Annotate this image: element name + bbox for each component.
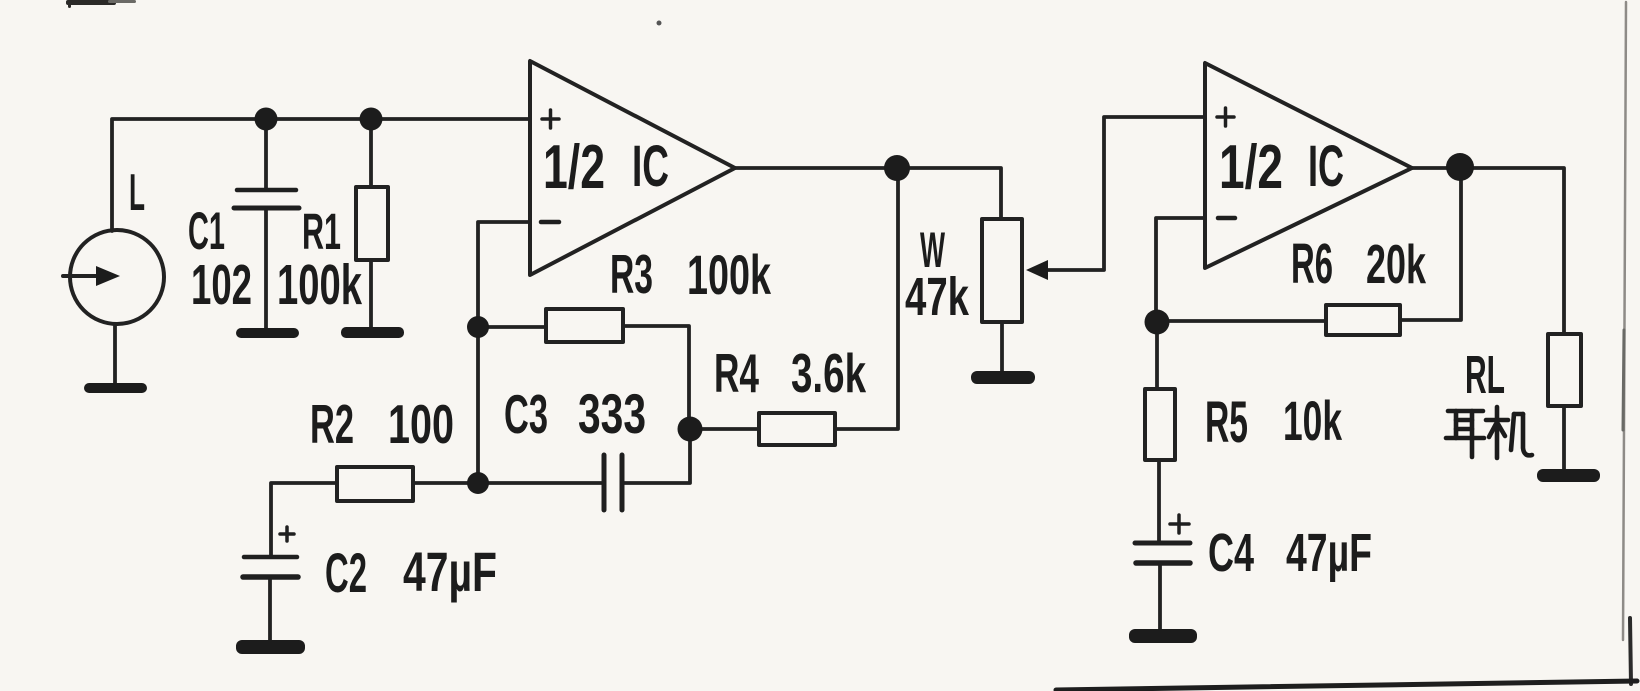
potentiometer W body [982, 219, 1022, 322]
wire: opamp1 output to pot top [735, 168, 1001, 219]
ground (C2) [236, 640, 305, 654]
svg-text:IC: IC [632, 134, 669, 199]
wire: C3 right lead up to node F [622, 429, 690, 483]
wire: R3 right lead down to node F [623, 326, 689, 429]
wire: R1 top lead [369, 119, 373, 187]
wire: R6 left lead [1157, 319, 1326, 323]
svg-text:10k: 10k [1283, 389, 1343, 452]
wire: R5 to C4 [1157, 460, 1161, 541]
wire: node G to R5 [1155, 322, 1159, 389]
svg-text:R3: R3 [610, 243, 653, 305]
junction node H (opamp2 output) [1446, 153, 1474, 181]
svg-text:333: 333 [578, 382, 646, 445]
svg-text:102: 102 [191, 253, 252, 317]
resistor R1 [356, 187, 388, 260]
svg-text:1/2: 1/2 [1219, 133, 1283, 202]
wire: C2 to ground [268, 577, 272, 641]
svg-text:R6: R6 [1291, 232, 1333, 296]
input source L circle [70, 230, 164, 324]
scan border right [1623, 2, 1626, 640]
ground (C1) [236, 328, 299, 338]
label erji (headphone) hanzi [1446, 407, 1532, 458]
junction node F [678, 417, 703, 442]
scan speck [657, 21, 662, 26]
wire: opamp2 output to RL [1412, 168, 1564, 334]
svg-text:R4: R4 [714, 342, 759, 404]
svg-text:100k: 100k [277, 253, 362, 317]
wire: opamp2 - input down to node G [1156, 218, 1205, 322]
capacitor C4 (polarized) [1135, 515, 1190, 563]
wire: source bottom lead [113, 324, 117, 384]
svg-text:R5: R5 [1205, 390, 1248, 455]
resistor RL [1548, 334, 1581, 406]
wire: C1 top lead [264, 119, 268, 189]
scan border corner dark [1630, 618, 1631, 684]
U2 minus sign [1218, 216, 1235, 221]
resistor R3 [546, 309, 623, 342]
wire: pot bottom to ground [1000, 322, 1004, 372]
junction node B [360, 108, 383, 131]
input source arrow [63, 274, 98, 278]
svg-text:R2: R2 [310, 393, 354, 455]
wire: RL to ground [1562, 406, 1566, 470]
svg-text:IC: IC [1308, 134, 1344, 199]
U2 plus sign [1217, 108, 1234, 126]
resistor R5 [1145, 389, 1175, 460]
wire: pot wiper to opamp2 + input [1048, 117, 1205, 270]
op-amp U1 [530, 61, 735, 275]
resistor R6 [1326, 305, 1400, 335]
svg-text:C4: C4 [1208, 523, 1254, 583]
op-amp U2 [1205, 63, 1412, 268]
ground (W) [971, 371, 1035, 384]
potentiometer W wiper arrow [1026, 260, 1048, 280]
scan artifact blob top-left [66, 0, 136, 8]
junction node A [255, 108, 278, 131]
svg-text:47µF: 47µF [1286, 523, 1372, 583]
ground (R1) [341, 327, 404, 338]
capacitor C2 (polarized) [243, 527, 298, 577]
wire: R1 bottom lead [369, 260, 373, 328]
wire: R4 left lead [690, 427, 759, 431]
capacitor C3 [604, 455, 622, 510]
wire: R4 right lead up to output node [835, 168, 898, 429]
svg-text:C3: C3 [504, 383, 548, 445]
svg-text:100k: 100k [687, 243, 772, 306]
svg-text:47k: 47k [905, 267, 970, 327]
resistor R2 [337, 467, 413, 501]
junction node E (opamp1 output) [884, 155, 910, 181]
wire: C1 bottom lead [264, 208, 268, 329]
resistor R4 [759, 413, 835, 445]
svg-text:20k: 20k [1366, 233, 1426, 295]
scan border bottom [1056, 681, 1637, 690]
wire: bottom wire R2 to C3 [413, 481, 604, 485]
wire: opamp1 - input and feedback vertical [478, 222, 530, 483]
svg-text:100: 100 [388, 393, 454, 455]
svg-text:L: L [129, 164, 145, 222]
junction node G [1145, 310, 1170, 335]
junction node C [467, 316, 489, 338]
wire: R6 right lead up to output node [1400, 168, 1461, 320]
svg-text:RL: RL [1465, 345, 1505, 405]
capacitor C1 [234, 190, 299, 208]
junction node D [467, 472, 489, 494]
wire: R2 left lead to C2 [271, 483, 337, 556]
ground (RL) [1537, 469, 1600, 482]
ground (source L) [84, 383, 147, 393]
wire: source top to opamp1 + input [112, 119, 530, 231]
svg-text:1/2: 1/2 [543, 133, 605, 202]
U1 plus sign [542, 110, 559, 128]
wire: R3 left lead [478, 325, 546, 329]
ground (C4) [1129, 629, 1197, 643]
U1 minus sign [541, 220, 559, 225]
svg-text:C2: C2 [325, 541, 367, 604]
svg-text:47µF: 47µF [403, 540, 497, 603]
wire: C4 to ground [1158, 565, 1162, 631]
svg-text:3.6k: 3.6k [791, 342, 866, 404]
svg-text:R1: R1 [302, 203, 341, 260]
